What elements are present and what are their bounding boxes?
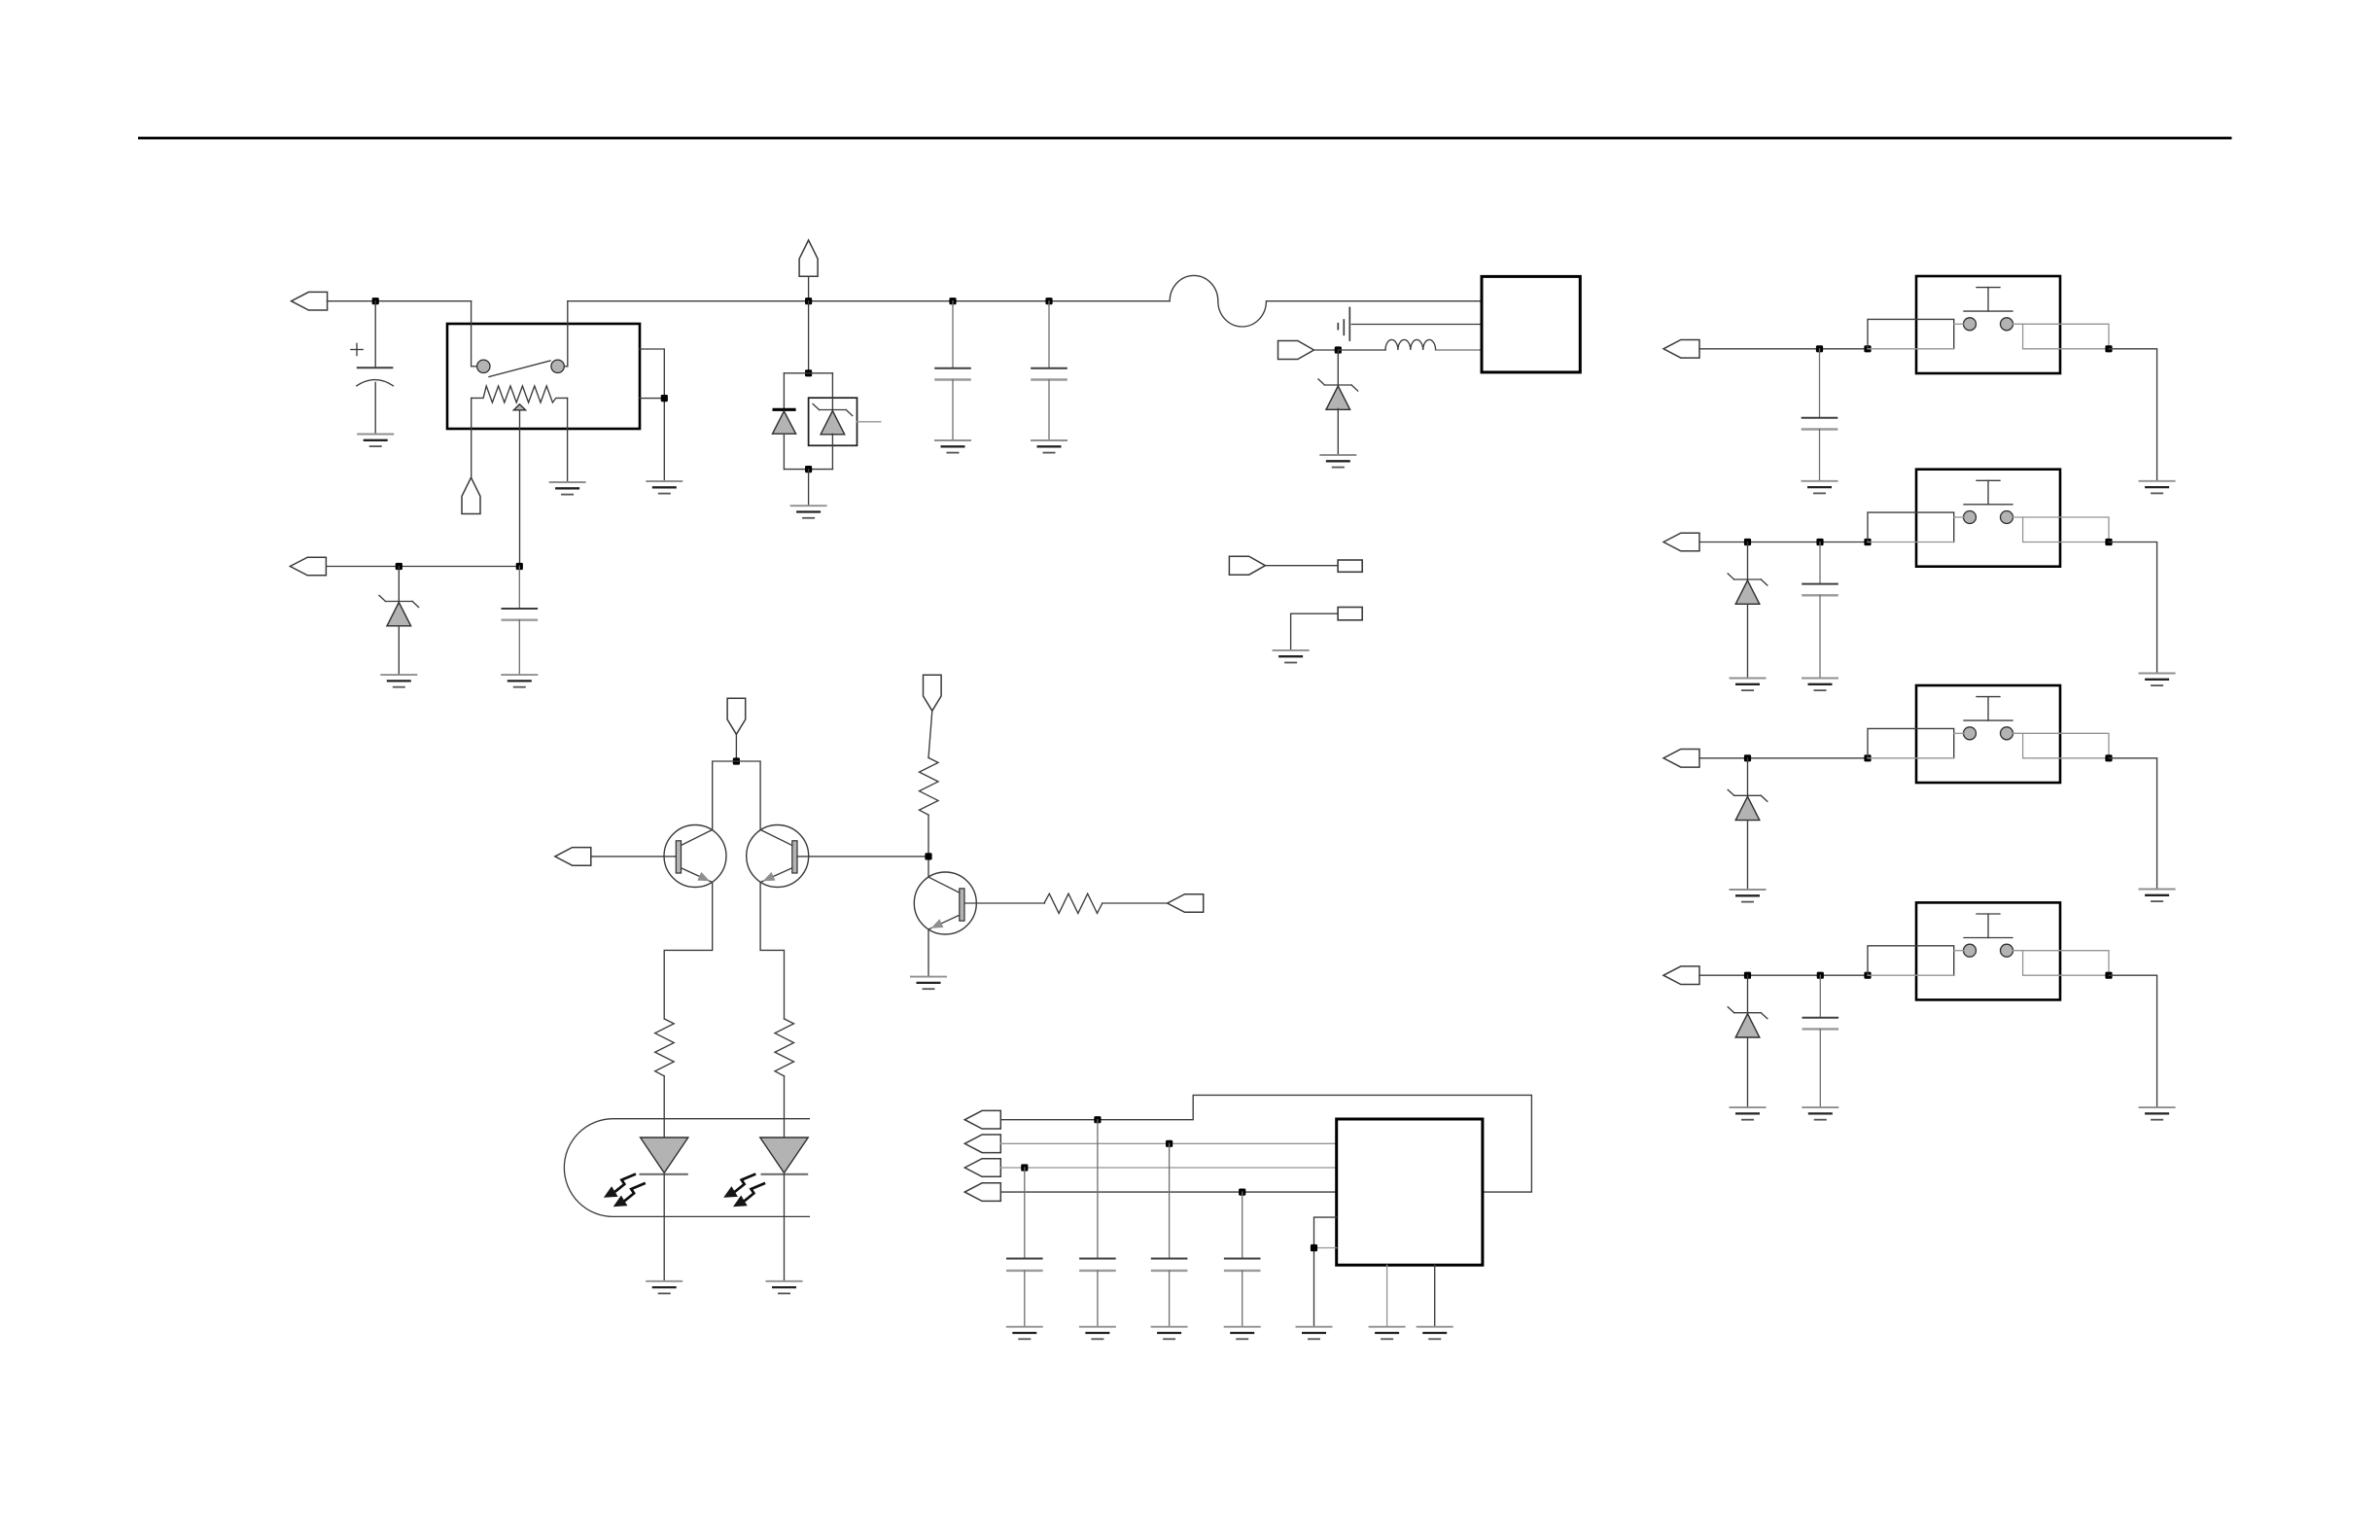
diode D4 (zener) (1337, 350, 1339, 385)
wire row bus (1699, 542, 1868, 543)
node junction (2105, 972, 2112, 979)
switch SW2 box (1916, 470, 2060, 567)
wire TVS loop top (784, 372, 832, 374)
diode DZ3 (zener) (1747, 758, 1749, 796)
power connector VQ3 (924, 675, 942, 711)
relay switch blade (489, 361, 550, 377)
terminal TP2 (1338, 608, 1362, 620)
wire (1436, 349, 1482, 351)
connector P2 (coil drive) (462, 477, 480, 513)
power connector VCC (799, 240, 818, 276)
sheet title rule (138, 137, 2232, 140)
diode DZ4 (zener) (1747, 975, 1749, 1012)
wire SW3 right pins (2013, 733, 2110, 758)
resistor R3 (920, 757, 939, 815)
wire (927, 815, 929, 877)
wire (663, 1076, 665, 1137)
wire SW2 left pins (1868, 512, 1964, 542)
connector J2 (sense) (290, 557, 326, 576)
switch SW1 contact a (1964, 318, 1977, 331)
node junction (2105, 539, 2112, 545)
node sense junction 2 (516, 563, 523, 570)
wire SW3 left pins (1868, 728, 1964, 757)
wire (735, 734, 737, 761)
node junction (1864, 972, 1871, 979)
node C junction (1021, 1164, 1028, 1171)
wire row bus (1699, 974, 1868, 976)
capacitor C4 (1031, 301, 1067, 440)
ground (1319, 455, 1356, 468)
node D junction (1239, 1189, 1245, 1196)
capacitor C3 (934, 301, 971, 440)
module U1 (power module) (1482, 276, 1580, 372)
ground (1273, 650, 1310, 663)
chassis ground (rotated) (1338, 307, 1349, 341)
node TVS top junction (805, 369, 812, 376)
capacitor C1 (polarized) (351, 301, 394, 435)
ground (1417, 1327, 1453, 1340)
ground (2139, 481, 2176, 494)
wire Q2 emitter (760, 883, 784, 1019)
capacitor C2 (502, 567, 539, 676)
wire wiper to sense net (519, 410, 521, 567)
node Q3 collector junction (925, 853, 931, 859)
wire U3 gnd pin 2 (1434, 1265, 1436, 1327)
wire (1747, 604, 1749, 678)
diode D3 (zener in box) (813, 404, 853, 435)
relay contact 2 (551, 360, 564, 372)
wire (1291, 613, 1339, 650)
wire Q3 base (964, 902, 1045, 904)
LED D6 light arrows (723, 1174, 765, 1207)
wire (1314, 349, 1339, 351)
connector J11 (1663, 750, 1699, 768)
ground (646, 481, 682, 494)
LED lamp outline (564, 1119, 810, 1217)
wire row bus (1699, 757, 1868, 759)
wire (1747, 1037, 1749, 1107)
node junction (2105, 345, 2112, 352)
ground (1802, 679, 1838, 691)
capacitor C8 (1224, 1192, 1261, 1327)
connector J8 (964, 1183, 1000, 1202)
wire net A (1000, 1095, 1531, 1192)
wire diode branch (783, 373, 785, 410)
wire relay pin2 (564, 301, 568, 367)
transistor Q3 (914, 872, 976, 934)
wire U3 vss return (1314, 1247, 1337, 1249)
wire (1102, 902, 1168, 904)
ground (1031, 440, 1067, 453)
ground (380, 675, 417, 687)
relay wiper (513, 404, 525, 410)
connector J12 (1663, 966, 1699, 985)
connector J6 (964, 1135, 1000, 1153)
capacitor CS4 (1802, 975, 1839, 1107)
wire to ground (2109, 542, 2157, 674)
ground (1369, 1327, 1406, 1340)
wire to ground (2109, 349, 2157, 481)
switch SW1 contact b (2001, 318, 2013, 331)
capacitor C5 (1006, 1168, 1043, 1327)
switch SW4 box (1916, 902, 2060, 999)
LED D5 (640, 1137, 688, 1281)
LED D5 light arrows (604, 1174, 646, 1207)
node junction (1864, 754, 1871, 761)
wire relay frame stub 2 (640, 398, 664, 400)
wire row bus (1699, 348, 1868, 350)
ground (1730, 679, 1767, 691)
wire (783, 434, 785, 469)
switch SW2 button (1964, 480, 2012, 505)
connector J5 (964, 1110, 1000, 1129)
node VIN junction (372, 297, 379, 304)
ground (1730, 1107, 1767, 1120)
transistor Q1 (664, 825, 726, 888)
connector J7 (964, 1159, 1000, 1177)
diode DZ2 (zener) (1747, 542, 1749, 580)
wire (398, 626, 400, 675)
ground (1006, 1327, 1043, 1340)
ground (1802, 481, 1838, 494)
wire (591, 856, 677, 857)
ground (934, 440, 971, 453)
wire (328, 300, 472, 302)
node junction (1744, 539, 1751, 545)
ground (1730, 890, 1767, 902)
power connector VLED (727, 698, 746, 734)
node junction (1816, 345, 1823, 352)
IC U3 (microcontroller) (1337, 1119, 1483, 1265)
wire (784, 1076, 786, 1137)
node bus junction 3 (1045, 297, 1052, 304)
node junction (1816, 539, 1823, 545)
node bus junction 2 (949, 297, 956, 304)
wire (831, 434, 833, 469)
wire (1265, 565, 1338, 567)
wire net D (1000, 1191, 1336, 1193)
node junction (1744, 754, 1751, 761)
switch SW3 contact a (1964, 727, 1977, 740)
wire (327, 566, 519, 568)
ground (766, 1281, 803, 1294)
node junction (1744, 972, 1751, 979)
capacitor CS2 (1802, 542, 1838, 679)
node TVS bottom junction (805, 466, 812, 472)
switch SW2 contact a (1964, 511, 1977, 524)
inductor L1 (1385, 339, 1436, 350)
resistor R1 (655, 1019, 675, 1076)
connector P4 (1229, 556, 1265, 575)
wire SW2 right pins (2013, 517, 2110, 542)
node junction (2105, 754, 2112, 761)
switch SW3 button (1964, 697, 2012, 721)
capacitor CS1 (1802, 349, 1838, 481)
node vss junction (1311, 1244, 1317, 1251)
resistor R2 (775, 1019, 794, 1076)
node junction (1864, 345, 1871, 352)
wire collector tie (713, 761, 760, 830)
wire to ground (2109, 758, 2157, 890)
wire TVS gate stub (857, 421, 881, 423)
wire SW1 left pins (1868, 319, 1964, 348)
wire (1337, 408, 1339, 455)
wire Q2 base (797, 856, 928, 857)
switch SW4 contact b (2001, 944, 2013, 957)
wire to ground (2109, 975, 2157, 1107)
wire net B (1000, 1142, 1336, 1144)
wire TVS loop bottom (784, 469, 832, 471)
wire net C (1000, 1167, 1336, 1169)
connector J3 (LED control) (555, 848, 591, 866)
wire (808, 470, 810, 507)
wire TVS drop (808, 301, 810, 373)
ground (2139, 890, 2176, 902)
node collector tie (733, 757, 740, 764)
TVS U2 box (809, 398, 857, 445)
switch SW1 box (1916, 276, 2060, 373)
wire relay pin1 (472, 301, 477, 367)
transistor Q2 (747, 825, 809, 888)
wire SW4 right pins (2013, 951, 2110, 976)
ground (357, 435, 394, 447)
wire (928, 711, 932, 757)
relay coil (472, 386, 568, 402)
switch SW3 contact b (2001, 727, 2013, 740)
switch SW1 button (1964, 288, 2012, 312)
connector J4 (1168, 894, 1204, 913)
ground (646, 1281, 682, 1294)
wire coil pin to connector (471, 398, 472, 477)
node bus junction (805, 297, 812, 304)
wire Q1 emitter (664, 883, 713, 1019)
switch SW4 contact a (1964, 944, 1977, 957)
capacitor C6 (1079, 1120, 1116, 1327)
connector P3 (switched feed) (1278, 341, 1314, 360)
diode D2 (773, 409, 796, 434)
ground (1296, 1327, 1333, 1340)
ground (2139, 674, 2176, 686)
switch SW4 button (1964, 914, 2012, 938)
connector J9 (1663, 340, 1699, 359)
fuse F1 (1170, 275, 1266, 327)
wire SW1 right pins (2013, 324, 2110, 349)
node junction (1864, 539, 1871, 545)
relay contact 1 (477, 360, 490, 372)
diode D1 (zener) (398, 567, 400, 602)
connector J10 (1663, 533, 1699, 551)
ground (790, 506, 827, 518)
node P3 junction (1335, 346, 1342, 353)
ground (1224, 1327, 1261, 1340)
ground (1802, 1107, 1838, 1120)
node junction (1817, 972, 1824, 979)
wire (1338, 349, 1385, 351)
ground (2139, 1107, 2176, 1120)
ground (549, 482, 586, 495)
node A junction (1094, 1116, 1101, 1123)
wire (1747, 821, 1749, 890)
wire (1351, 324, 1482, 326)
node B junction (1166, 1140, 1172, 1147)
node sense junction (396, 563, 402, 570)
wire coil pin to ground (567, 398, 569, 482)
node frame junction (661, 395, 668, 402)
ground (1151, 1327, 1188, 1340)
wire SW4 left pins (1868, 946, 1964, 975)
connector J1 (battery input) (292, 292, 328, 310)
ground (1079, 1327, 1116, 1340)
ground (501, 675, 538, 687)
wire U3 vss stub (1314, 1217, 1337, 1327)
switch SW3 box (1916, 685, 2060, 783)
LED D6 (760, 1137, 808, 1281)
wire (1267, 300, 1482, 302)
wire main bus (568, 300, 1170, 302)
terminal TP1 (1338, 560, 1362, 572)
wire (808, 276, 810, 300)
wire zener branch (831, 373, 833, 410)
capacitor C7 (1151, 1143, 1188, 1326)
resistor R4 (1044, 893, 1102, 913)
wire U3 gnd pin 1 (1386, 1265, 1388, 1327)
switch SW2 contact b (2001, 511, 2013, 524)
ground (910, 977, 947, 990)
wire Q3 emitter (927, 929, 929, 977)
wire relay frame stub (640, 349, 664, 481)
relay K1 box (447, 324, 640, 429)
